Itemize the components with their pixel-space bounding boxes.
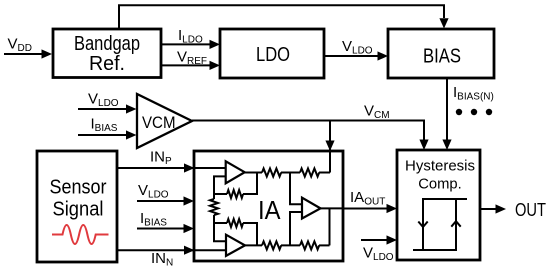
wire A2 feedback to output node [243,223,257,245]
net label VLDO (LDO to BIAS) [342,38,373,57]
wire VCM output to Hysteresis Comp with arrow [192,121,429,151]
dots (more bias outputs) [456,109,492,115]
svg-text:BIAS: BIAS [423,46,461,68]
wire bottom row middle [281,244,300,246]
wire INP from Sensor Signal to IA [117,163,226,172]
net label ILDO [178,27,203,46]
resistor R4 (bottom row right) [300,241,319,249]
wire VLDO stub into VCM with arrow [78,104,137,113]
wire VLDO from LDO to BIAS with arrow [324,51,388,60]
net label IAOUT [350,189,385,208]
wire IBIAS stub into VCM with arrow [78,130,137,139]
net label VCM [364,103,390,122]
buffer VCM [137,94,192,148]
wire VDD input with arrow [4,49,52,58]
svg-text:Bandgap: Bandgap [74,33,140,55]
op-amp A3 (output amp) [302,198,321,219]
svg-text:Comp.: Comp. [418,176,462,193]
block LDO [220,29,324,78]
resistor R3 (bottom row left) [262,241,281,249]
wire IAOUT from A3 through IA edge to Hysteresis Comp with arrow [321,204,398,213]
net label VLDO (into VCM) [88,90,119,109]
net label VREF [177,49,207,68]
hysteresis symbol [413,199,467,250]
wire OUT output with arrow [480,204,506,213]
net label INN [151,250,173,269]
wire node A1 row to A3 inverting input [290,173,302,205]
wire A1 feedback loop [214,176,227,194]
wire A2 feedback loop [214,223,227,241]
wire A2 output row [245,244,262,246]
net label OUT [515,200,546,220]
net label VLDO (into IA) [138,182,169,201]
wire top row middle [281,172,300,174]
svg-text:OUT: OUT [515,200,546,220]
resistor A1 feedback [227,190,243,198]
block Sensor Signal [37,151,117,262]
net label VDD [8,36,32,55]
wire VLDO stub into Hysteresis Comp with arrow [361,235,397,244]
resistor R1 (top row left) [262,169,281,177]
block BIAS [388,29,494,78]
wire top row to VCM line [319,172,330,174]
svg-text:Sensor: Sensor [50,177,107,199]
resistor A2 feedback [227,219,243,227]
svg-text:VCM: VCM [142,114,176,132]
net label IBIAS (into IA) [140,210,167,229]
label IA [258,195,281,225]
block Hysteresis Comp. [397,150,480,260]
svg-text:Hysteresis: Hysteresis [405,158,475,175]
wire A1 feedback to output node [243,173,257,195]
net label IBIAS(N) [453,84,494,103]
wire node A2 row to A3 non-inverting input [290,212,302,245]
wire IBIAS(N) from BIAS down to Hysteresis Comp with arrow [442,78,451,150]
wire VLDO stub into IA with arrow [137,196,194,205]
wire VCM branch down into IA with arrow [325,121,334,173]
wire ILDO Bandgap to LDO with arrow [161,40,220,49]
net label IBIAS (into VCM) [91,116,118,135]
svg-text:IA: IA [258,195,281,225]
svg-text:LDO: LDO [256,44,290,66]
block U1 Bandgap Ref. [53,29,161,78]
sensor waveform (red) [52,225,109,244]
wire A1 output row [245,172,262,174]
svg-text:Ref.: Ref. [89,53,125,75]
wire A3 feedback vertical [329,208,331,245]
wire IBIAS stub into IA with arrow [137,224,194,233]
resistor R2 (top row right) [300,169,319,177]
wire top feedback from Bandgap to BIAS with arrow [119,5,449,29]
svg-text:Signal: Signal [53,198,104,220]
op-amp A2 (bottom input amp) [226,235,245,256]
net label INP [150,149,172,168]
wire INN from Sensor Signal to IA [117,246,226,255]
op-amp A1 (top input amp) [226,161,245,183]
wire VREF Bandgap to LDO with arrow [161,61,220,70]
resistor RG (gain, vertical) [210,194,218,223]
block IA (instrumentation amplifier) [194,151,343,261]
net label VLDO (into Hysteresis Comp) [363,245,394,264]
wire bottom row to feedback line [319,244,330,246]
